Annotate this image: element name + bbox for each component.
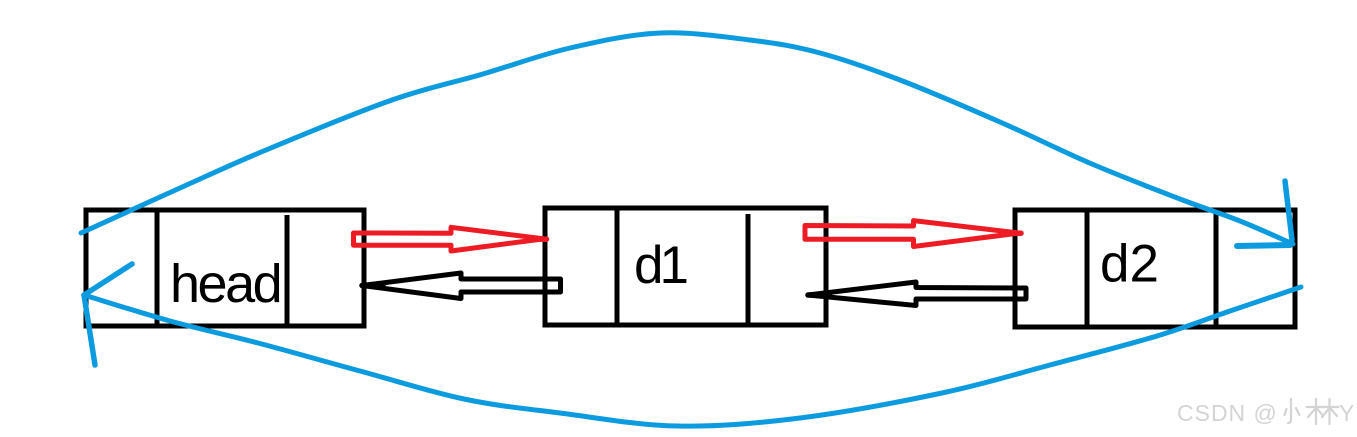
watermark CSDN @ 小林Y	[1177, 399, 1354, 426]
d2 box divider 2	[1214, 214, 1219, 327]
svg-text:CSDN @: CSDN @	[1177, 400, 1278, 426]
d1 box divider 2	[746, 214, 751, 325]
blue top arrowhead barb horizontal	[1237, 245, 1290, 246]
black arrow 1 tip nub	[362, 283, 383, 289]
red arrow 1 tip nub	[527, 236, 547, 242]
wire: red next arrow head->d1	[354, 227, 545, 251]
svg-text:d1: d1	[634, 236, 686, 295]
wire: black prev arrow d2->d1	[808, 282, 1026, 306]
blue bottom arrowhead barb upper	[84, 264, 132, 295]
blue top arrowhead barb vertical	[1285, 181, 1292, 240]
blue bottom arrowhead barb lower	[84, 295, 95, 365]
red arrow 2 tip nub	[1003, 230, 1021, 236]
head box divider 2	[285, 215, 290, 326]
node d1 box	[545, 208, 826, 325]
svg-text:Y: Y	[1339, 400, 1354, 426]
head box divider 1	[155, 210, 160, 326]
d2 box divider 1	[1085, 210, 1090, 327]
wire: blue top arc head->d2	[81, 33, 1293, 244]
node head box	[86, 210, 364, 326]
svg-text:d2: d2	[1100, 235, 1159, 294]
svg-text:head: head	[170, 254, 280, 314]
d1 box divider 1	[615, 208, 620, 325]
wire: black prev arrow d1->head	[362, 273, 561, 299]
watermark glyph 小	[1285, 399, 1300, 423]
wire: blue bottom curve d2->head	[84, 287, 1301, 426]
watermark glyph 林	[1307, 399, 1339, 424]
black arrow 2 tip nub	[808, 292, 829, 298]
wire: red next arrow d1->d2	[805, 221, 1020, 247]
node d2 box	[1015, 210, 1295, 327]
